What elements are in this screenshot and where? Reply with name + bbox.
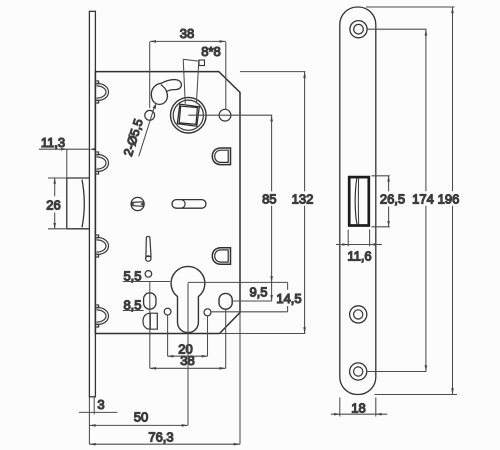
spring pin (teardrop) (146, 236, 151, 261)
dim 132 line (220, 72, 306, 334)
bottom screw hole (350, 363, 367, 380)
lock body outline (95, 72, 240, 334)
svg-text:26,5: 26,5 (380, 191, 405, 206)
svg-text:18: 18 (351, 400, 365, 415)
extension line slot 9,5 (232, 300, 272, 302)
faceplate plate (340, 7, 376, 395)
top screw hole (350, 21, 367, 38)
hole 20-right (204, 309, 211, 316)
extension line euro centre horizontal (188, 281, 288, 283)
spindle hub U (171, 97, 207, 133)
dim 20 (168, 315, 208, 356)
dim 18 (331, 398, 388, 417)
dim 14,5 line (287, 282, 289, 311)
mounting clip ear 3 (95, 235, 108, 257)
svg-text:85: 85 (262, 191, 276, 206)
extension line spindle centre (188, 114, 272, 116)
dim 196 (366, 7, 457, 395)
leader line 2-O5,5 (139, 106, 155, 156)
mounting clip ear 4 (95, 305, 108, 327)
middle screw hole (350, 306, 367, 323)
slot 8,5 (144, 293, 156, 309)
latch bolt (side view) (67, 178, 90, 229)
latch window (349, 177, 369, 225)
svg-text:8*8: 8*8 (201, 44, 221, 59)
dim 11,6 (336, 230, 382, 247)
mounting clip ear 1 (95, 81, 108, 103)
svg-text:9,5: 9,5 (249, 285, 267, 300)
D-cutout 2 (212, 248, 230, 265)
dim 50 (89, 283, 188, 444)
mounting clip ear 2 (95, 152, 108, 174)
extension line hole 14,5 (211, 311, 288, 313)
label 8*8 leader (183, 59, 199, 104)
dim 85 and 9,5 line (271, 115, 273, 301)
svg-text:50: 50 (134, 410, 148, 425)
dim 26 (48, 178, 67, 229)
hole right of spindle (219, 109, 231, 121)
hole 5,5 (145, 271, 152, 278)
svg-text:76,3: 76,3 (148, 430, 173, 445)
dim 11,3 (39, 149, 90, 177)
svg-text:3: 3 (97, 397, 104, 412)
svg-text:26: 26 (46, 197, 60, 212)
svg-text:174: 174 (412, 191, 434, 206)
svg-text:196: 196 (438, 191, 460, 206)
svg-text:11,6: 11,6 (347, 248, 371, 263)
dim 76,3 (89, 313, 240, 445)
slide slot with pin (172, 200, 206, 209)
svg-text:38: 38 (180, 26, 194, 41)
hole 20-left (164, 308, 171, 315)
dim 38 bottom (150, 282, 226, 369)
dim 174 (367, 29, 427, 371)
svg-text:2-Ø5,5: 2-Ø5,5 (121, 117, 146, 158)
euro cylinder profile (171, 266, 205, 332)
hole 2-O5,5 (145, 110, 155, 120)
svg-text:14,5: 14,5 (276, 291, 301, 306)
clip below slot (143, 313, 157, 329)
svg-text:11,3: 11,3 (41, 135, 65, 150)
dim 38 top (150, 41, 226, 110)
slot 9,5 (bottom right obround) (219, 293, 232, 309)
dim 3 (79, 397, 117, 414)
bean-shaped lever slot (151, 80, 181, 105)
spindle square 8x8 (177, 104, 199, 126)
screw with slot (131, 197, 144, 210)
D-cutout 1 (212, 148, 230, 165)
faceplate edge bar (side view) (89, 11, 95, 397)
dim 26,5 (372, 176, 390, 227)
svg-text:132: 132 (292, 191, 314, 206)
latch bevel curves (355, 179, 357, 225)
